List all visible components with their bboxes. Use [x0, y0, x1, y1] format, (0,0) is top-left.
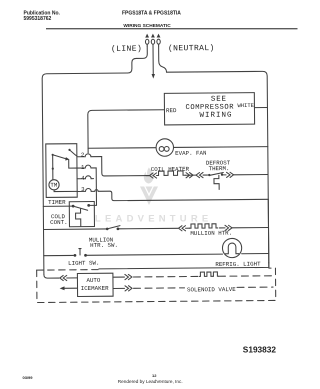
icemaker dashed boundary box: [37, 268, 276, 302]
icemaker lower left arrow: [60, 286, 65, 290]
wire: neutral prong to right rail: [159, 45, 269, 264]
mullion heater resistor: [189, 224, 217, 228]
timer pivot and arm: [52, 154, 54, 156]
connector into defrost therm: [196, 172, 203, 177]
svg-text:(LINE): (LINE): [111, 45, 142, 54]
svg-text:FPGS18TA & FPGS18TIA: FPGS18TA & FPGS18TIA: [122, 11, 181, 17]
svg-text:03/99: 03/99: [23, 375, 34, 380]
svg-text:HTR. SW.: HTR. SW.: [90, 242, 118, 249]
icemaker lower right wire: [113, 287, 124, 289]
compressor WHITE wire: [254, 107, 267, 109]
coil heater resistor: [157, 171, 186, 176]
connector after therm: [227, 172, 234, 177]
connector out of mullion heater: [220, 227, 225, 229]
svg-text:3: 3: [81, 186, 85, 193]
solenoid coil: [199, 272, 218, 276]
svg-text:(NEUTRAL): (NEUTRAL): [168, 44, 215, 53]
left rail bottom corner to icemaker: [44, 275, 59, 279]
defrost heater line: connector: [150, 173, 157, 178]
header rule: [46, 28, 298, 29]
timer motor TM: [49, 180, 59, 190]
cold control contacts: [72, 205, 75, 208]
svg-text:TM: TM: [50, 182, 58, 189]
auto icemaker box: [77, 273, 113, 296]
light switch: [74, 254, 77, 257]
evap fan motor: [156, 139, 174, 157]
watermark flame icon: [140, 168, 158, 206]
timer internal wire to TM: [52, 167, 54, 169]
connector out of coil heater: [186, 173, 193, 178]
svg-text:THERM.: THERM.: [209, 165, 230, 172]
mullion switch: [106, 228, 109, 231]
connector into mullion heater: [178, 226, 185, 231]
svg-text:TIMER: TIMER: [48, 199, 66, 206]
svg-text:2: 2: [81, 152, 85, 159]
svg-text:LEADVENTURE: LEADVENTURE: [95, 214, 212, 225]
defrost therm sensing tail: [214, 175, 219, 189]
pin1 wire down to cold control: [90, 168, 97, 205]
bottom rail: [99, 263, 269, 269]
defrost thermostat contacts: [208, 174, 210, 176]
compressor box U1: [164, 93, 254, 125]
timer pin 4: [77, 176, 94, 179]
cold control bellows: [76, 209, 81, 227]
pin2 wire down to defrost line: [102, 156, 150, 176]
svg-text:12: 12: [152, 373, 157, 378]
svg-text:ICEMAKER: ICEMAKER: [81, 285, 109, 292]
svg-text:SEE: SEE: [211, 96, 227, 104]
svg-text:AUTO: AUTO: [86, 277, 100, 284]
icemaker upper right wire: [113, 276, 124, 278]
cold control wire from left rail: [43, 205, 72, 207]
svg-text:EVAP. FAN: EVAP. FAN: [175, 150, 207, 157]
svg-text:WIRING: WIRING: [199, 112, 232, 120]
wire: line prong to left rail: [42, 46, 149, 275]
svg-text:1: 1: [81, 164, 85, 171]
light switch line: [44, 254, 73, 256]
svg-text:5995318762: 5995318762: [24, 16, 52, 22]
cold control box: [69, 202, 94, 227]
svg-text:4: 4: [81, 175, 85, 182]
svg-text:COIL HEATER: COIL HEATER: [151, 166, 190, 173]
svg-text:Rendered by LeadVenture, Inc.: Rendered by LeadVenture, Inc.: [118, 379, 183, 384]
compressor RED wire: [88, 110, 165, 153]
svg-text:MULLION HTR.: MULLION HTR.: [190, 230, 232, 237]
timer pin 2: [77, 154, 102, 157]
svg-text:RED: RED: [166, 107, 177, 114]
timer pin 1: [77, 165, 96, 168]
svg-text:S193832: S193832: [243, 345, 277, 355]
plug prong arrows: [145, 34, 160, 47]
refrig light lamp: [222, 238, 241, 257]
connector icemaker upper left: [60, 275, 67, 280]
svg-text:SOLENOID VALVE: SOLENOID VALVE: [187, 286, 236, 293]
timer arm to pin 1: [69, 160, 77, 168]
svg-text:CONT.: CONT.: [50, 219, 67, 226]
timer box: [46, 144, 77, 198]
evap fan wire: [88, 147, 156, 150]
pin3 wire to right rail: [91, 188, 268, 201]
timer pin 3: [77, 189, 91, 192]
svg-text:LIGHT SW.: LIGHT SW.: [68, 260, 99, 267]
svg-text:WHITE: WHITE: [237, 102, 254, 109]
mullion line: [44, 228, 106, 231]
ground prong wire with down arrow: [152, 46, 154, 74]
timer contact A: [68, 149, 70, 151]
svg-text:REFRIG. LIGHT: REFRIG. LIGHT: [215, 261, 261, 268]
